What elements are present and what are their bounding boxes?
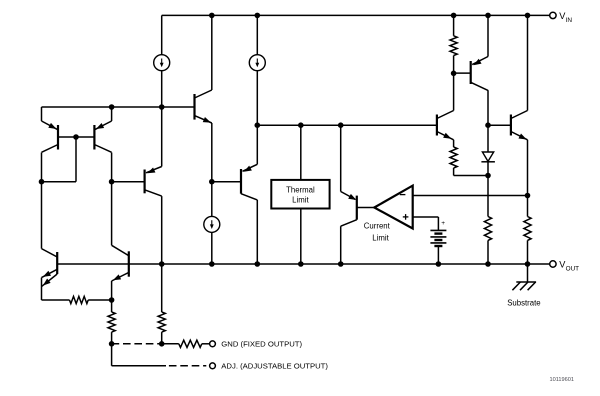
svg-text:Limit: Limit: [372, 234, 389, 243]
svg-text:Limit: Limit: [292, 196, 309, 205]
svg-text:OUT: OUT: [566, 265, 580, 272]
svg-text:IN: IN: [566, 17, 573, 24]
svg-text:ADJ. (ADJUSTABLE OUTPUT): ADJ. (ADJUSTABLE OUTPUT): [221, 362, 328, 371]
svg-text:GND (FIXED OUTPUT): GND (FIXED OUTPUT): [221, 340, 302, 349]
svg-text:Current: Current: [364, 221, 391, 230]
svg-text:Thermal: Thermal: [286, 185, 315, 194]
svg-text:+: +: [441, 220, 445, 227]
svg-text:10119601: 10119601: [550, 377, 574, 383]
svg-text:Substrate: Substrate: [507, 298, 540, 307]
